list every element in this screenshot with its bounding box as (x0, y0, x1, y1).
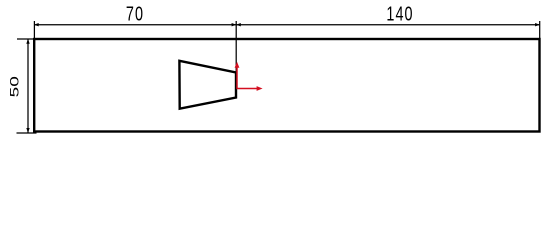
datum marker red vertical arrowhead (235, 62, 240, 68)
extension line middle (x=236.2) down to datum point (235, 21, 237, 89)
datum marker red horizontal arrow shaft (236, 88, 257, 90)
extension line left (x=34.4) (33, 21, 35, 38)
arrowhead bottom of 50 dim (26, 128, 29, 133)
datum marker red horizontal arrowhead (257, 86, 263, 91)
extension line top-left horizontal (y=39) (17, 38, 34, 40)
svg-text:140: 140 (386, 2, 413, 25)
datum marker red vertical arrow shaft (236, 67, 238, 89)
arrowhead left of 140 dim (236, 23, 241, 26)
arrowhead right of 70 dim (232, 23, 237, 26)
svg-text:70: 70 (126, 2, 144, 25)
dimension line 70 (34, 24, 236, 26)
svg-text:50: 50 (8, 76, 22, 97)
dimension line 140 (236, 24, 539, 26)
arrowhead right of 140 dim (535, 23, 540, 26)
extension line right (x=539.7) (539, 21, 541, 38)
plate outline rectangle (34, 39, 539, 132)
arrowhead left of 70 dim (34, 23, 39, 26)
trapezoid cutout (179, 61, 236, 109)
dimension line 50 (27, 39, 29, 132)
arrowhead top of 50 dim (26, 39, 29, 44)
extension line bottom-left horizontal (y=133) (17, 132, 37, 134)
